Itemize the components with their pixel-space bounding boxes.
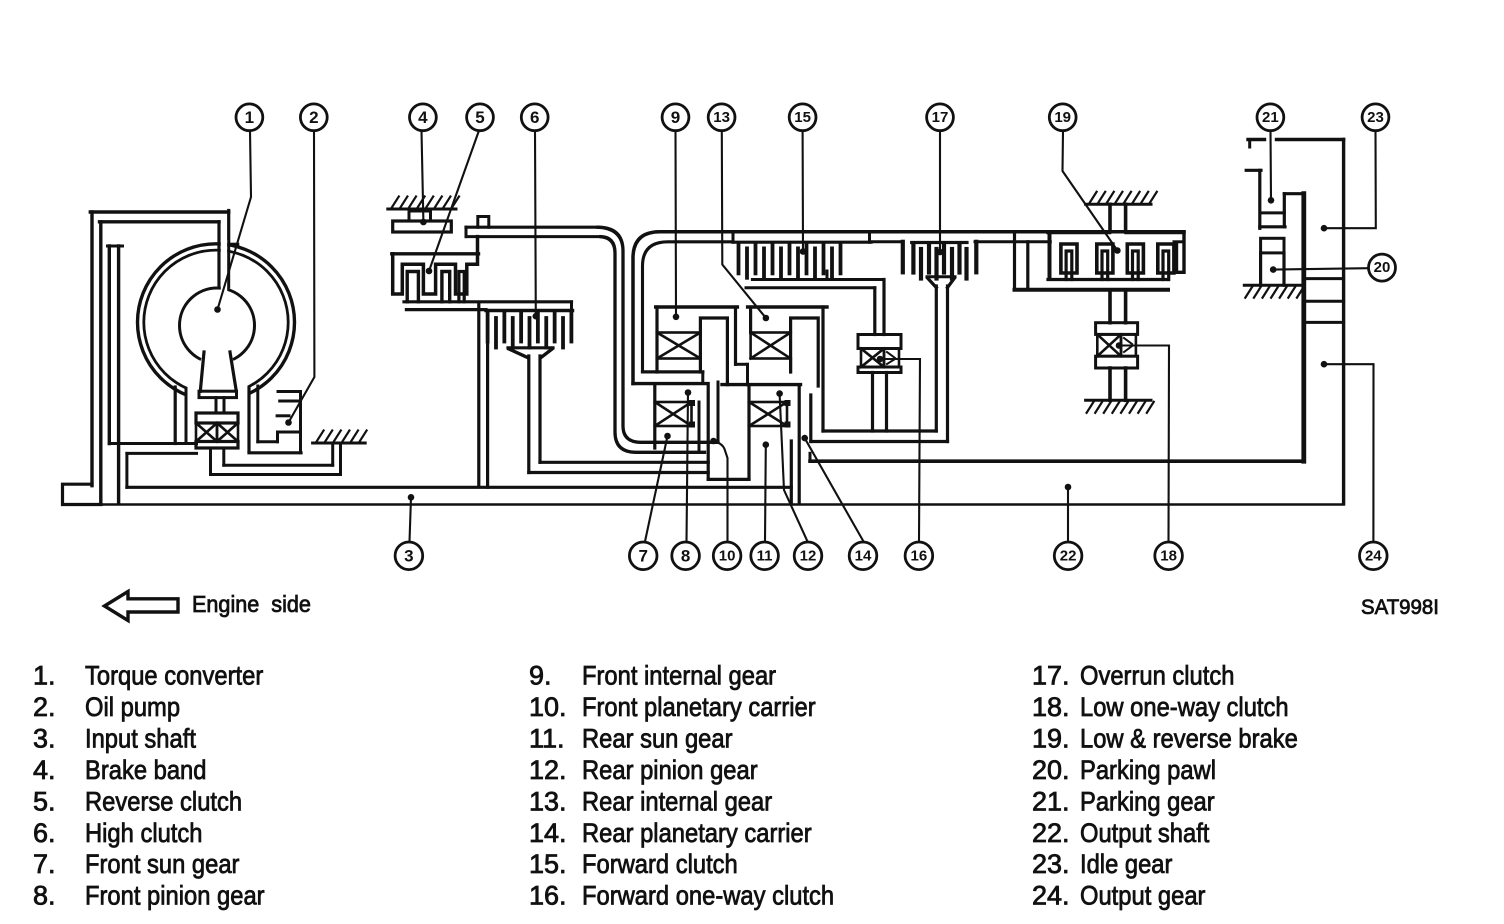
input shaft top line (3) bbox=[127, 486, 791, 489]
low one-way clutch (18) top flange bbox=[1096, 323, 1138, 335]
front sun gear box (7) bbox=[633, 382, 708, 385]
callout circle 15 bbox=[789, 104, 816, 131]
forward one-way clutch (16) bottom flange bbox=[858, 367, 901, 373]
svg-text:17: 17 bbox=[932, 109, 949, 126]
svg-text:24.: 24. bbox=[1032, 881, 1070, 911]
leader 12 bbox=[780, 394, 808, 542]
svg-text:23: 23 bbox=[1367, 109, 1384, 126]
svg-text:15.: 15. bbox=[529, 849, 567, 879]
low one-way clutch stem (lower) bbox=[1108, 368, 1112, 400]
rear sun bearing bbox=[749, 402, 787, 426]
pump drive neck bbox=[215, 398, 218, 413]
pump ground bracket bbox=[331, 443, 334, 465]
reverse clutch hub plate bbox=[404, 300, 572, 303]
output/idle gear mesh lines bbox=[1304, 277, 1344, 280]
low one-way clutch stem (upper) bbox=[1108, 290, 1112, 323]
svg-text:4.: 4. bbox=[33, 755, 56, 785]
leader 7 bbox=[645, 436, 668, 542]
rear sun gear box (11) bbox=[722, 383, 801, 386]
svg-text:1: 1 bbox=[245, 108, 254, 127]
forward one-way clutch (16) top flange bbox=[858, 335, 901, 349]
forward one-way clutch stem bbox=[871, 373, 874, 432]
idle gear top line bbox=[1248, 138, 1265, 141]
svg-text:14: 14 bbox=[855, 547, 872, 564]
svg-text:Oil pump: Oil pump bbox=[85, 693, 180, 723]
forward clutch comb (15) bbox=[733, 241, 871, 244]
high clutch hub goblet bbox=[509, 349, 528, 358]
svg-text:24: 24 bbox=[1365, 547, 1382, 564]
svg-text:5: 5 bbox=[475, 108, 484, 127]
turbine funnel cone bbox=[200, 352, 204, 391]
svg-text:6.: 6. bbox=[33, 818, 56, 848]
callout circle 6 bbox=[521, 104, 548, 131]
ground (under low one-way clutch) bbox=[1086, 399, 1151, 402]
torque converter inner shell ring bbox=[144, 250, 288, 394]
front box bottom bbox=[643, 370, 703, 373]
callout circle 14 bbox=[849, 542, 877, 570]
callout circle 13 bbox=[708, 104, 735, 131]
high clutch output shaft bbox=[527, 356, 530, 473]
parking gear bar (21) bbox=[1301, 194, 1306, 462]
leader 21 bbox=[1269, 131, 1272, 201]
front sun gear shaft lines bbox=[540, 461, 708, 464]
reverse clutch comb (5) bbox=[392, 252, 479, 255]
callout circle 10 bbox=[713, 542, 741, 570]
overrun hub stem bbox=[935, 286, 938, 431]
svg-text:Brake band: Brake band bbox=[85, 755, 206, 785]
drum second line segments bbox=[870, 240, 902, 243]
leader 5 bbox=[429, 131, 479, 272]
rear sun bottom bbox=[708, 478, 749, 481]
leader 6 bbox=[534, 131, 537, 316]
high clutch comb (6) bbox=[486, 309, 573, 312]
front internal gear bearing bbox=[657, 333, 700, 359]
turbine funnel mask bbox=[198, 354, 236, 368]
leader 1 bbox=[218, 131, 252, 310]
leader 13 bbox=[722, 131, 766, 318]
rear gear step bbox=[789, 359, 792, 373]
band drum shaft bbox=[477, 303, 480, 486]
bottom case line bbox=[63, 503, 1344, 505]
svg-text:18.: 18. bbox=[1032, 692, 1070, 722]
callout circle 11 bbox=[751, 542, 779, 570]
svg-text:11.: 11. bbox=[529, 723, 565, 753]
svg-text:20.: 20. bbox=[1032, 755, 1070, 785]
callout circle 7 bbox=[629, 542, 657, 570]
svg-text:Front planetary carrier: Front planetary carrier bbox=[582, 693, 816, 723]
converter right leg bbox=[247, 388, 250, 451]
leader 2 bbox=[289, 131, 315, 423]
svg-text:2.: 2. bbox=[33, 692, 56, 722]
svg-text:19.: 19. bbox=[1032, 723, 1070, 753]
svg-text:Engine side: Engine side bbox=[192, 591, 311, 617]
transmission case outer wall (left) bbox=[90, 212, 93, 486]
callout circle 23 bbox=[1362, 104, 1389, 131]
case top wall bbox=[90, 210, 228, 213]
turbine hub top mask bbox=[221, 284, 227, 294]
svg-text:13.: 13. bbox=[529, 786, 567, 816]
leader 14 bbox=[805, 438, 864, 541]
svg-text:Low one-way clutch: Low one-way clutch bbox=[1080, 693, 1289, 723]
svg-text:Rear internal gear: Rear internal gear bbox=[582, 787, 773, 817]
leader 17 bbox=[939, 131, 941, 252]
leader 4 bbox=[422, 131, 424, 222]
leader 9 bbox=[674, 131, 677, 317]
leader 24 bbox=[1324, 364, 1374, 541]
low & reverse brake inner plate bbox=[1048, 278, 1168, 281]
svg-text:Rear pinion gear: Rear pinion gear bbox=[582, 755, 758, 785]
callout circle 22 bbox=[1054, 542, 1082, 570]
svg-text:Rear sun gear: Rear sun gear bbox=[582, 724, 733, 754]
low one-way clutch (18) bottom flange bbox=[1096, 356, 1138, 368]
svg-text:13: 13 bbox=[713, 109, 730, 126]
oil pump feed channel bbox=[109, 442, 196, 445]
svg-text:15: 15 bbox=[794, 109, 811, 126]
turbine collar bbox=[199, 391, 237, 397]
case top step into torque converter housing bbox=[227, 211, 230, 245]
svg-text:21.: 21. bbox=[1032, 786, 1070, 816]
leader 19 bbox=[1063, 131, 1118, 251]
rear drum wall (right of overrun) bbox=[1013, 232, 1016, 290]
low & reverse brake comb (19) bbox=[1048, 231, 1110, 234]
pillar inner line bbox=[717, 382, 720, 442]
svg-text:9: 9 bbox=[671, 108, 680, 127]
svg-text:22.: 22. bbox=[1032, 818, 1070, 848]
svg-text:8.: 8. bbox=[33, 881, 56, 911]
output shaft line bbox=[810, 459, 1304, 463]
svg-text:10.: 10. bbox=[529, 692, 567, 722]
svg-text:Parking pawl: Parking pawl bbox=[1080, 755, 1216, 785]
leader 11 bbox=[764, 445, 767, 542]
svg-text:Front pinion gear: Front pinion gear bbox=[85, 881, 265, 911]
callout circle 24 bbox=[1360, 542, 1388, 570]
svg-text:12: 12 bbox=[800, 547, 817, 564]
svg-text:5.: 5. bbox=[33, 786, 56, 816]
output gear right wall bbox=[1342, 140, 1345, 504]
ground (low & reverse brake anchor) bbox=[1086, 203, 1151, 206]
rear internal gear bearing bbox=[751, 333, 791, 359]
leader 16 bbox=[880, 359, 920, 542]
oil pump body bracket (2) bbox=[278, 432, 301, 442]
svg-text:Idle gear: Idle gear bbox=[1080, 850, 1173, 880]
oil pump bottom plate bbox=[196, 442, 238, 449]
svg-text:Output shaft: Output shaft bbox=[1080, 818, 1209, 848]
oil pump bearing crosshatch box bbox=[196, 423, 217, 442]
svg-text:High clutch: High clutch bbox=[85, 818, 202, 848]
parking gear T cap bbox=[1284, 192, 1304, 195]
parking pawl box (20) bbox=[1261, 238, 1284, 253]
leader 8 bbox=[687, 393, 689, 542]
callout circle 18 bbox=[1155, 542, 1183, 570]
svg-text:Parking gear: Parking gear bbox=[1080, 787, 1215, 817]
oil pump foot bbox=[209, 448, 212, 475]
svg-text:3: 3 bbox=[404, 546, 413, 565]
stator support wall bbox=[108, 246, 111, 444]
callout circle 5 bbox=[467, 104, 494, 131]
svg-text:Low & reverse brake: Low & reverse brake bbox=[1080, 724, 1298, 754]
reverse-to-high drum plate bbox=[406, 308, 486, 311]
callout circle 19 bbox=[1049, 104, 1076, 131]
svg-text:8: 8 bbox=[681, 546, 690, 565]
low one-way clutch (18) crosshatch bbox=[1097, 334, 1121, 356]
parking gear ledge bbox=[1246, 169, 1261, 172]
callout circle 16 bbox=[905, 542, 933, 570]
svg-text:Front internal gear: Front internal gear bbox=[582, 661, 777, 691]
callout circle 8 bbox=[672, 542, 700, 570]
leader 10 bbox=[714, 441, 728, 542]
leader 15 bbox=[802, 131, 805, 252]
ground (parking pawl) bbox=[1244, 284, 1300, 287]
torque converter top channel mask bbox=[221, 240, 227, 288]
hub-to-case channel lines bbox=[218, 222, 221, 287]
rear sun pillar bbox=[791, 318, 819, 386]
callout circle 2 bbox=[300, 104, 327, 131]
callout circle 4 bbox=[410, 104, 437, 131]
leader 20 bbox=[1273, 268, 1368, 269]
forward one-way clutch (16) crosshatch bbox=[861, 349, 884, 368]
svg-text:17.: 17. bbox=[1032, 661, 1070, 691]
callout circle 12 bbox=[794, 542, 822, 570]
case foot (bottom-left) bbox=[63, 484, 102, 504]
svg-text:23.: 23. bbox=[1032, 849, 1070, 879]
callout circle 21 bbox=[1257, 104, 1284, 131]
leader 23 bbox=[1324, 131, 1376, 228]
band servo stub bbox=[478, 217, 489, 228]
overrun clutch comb (17) bbox=[912, 241, 967, 244]
input drum top channel bbox=[466, 226, 598, 229]
low & reverse brake anchor stem bbox=[1108, 204, 1112, 232]
input drum bend (inner) bbox=[601, 237, 705, 453]
svg-text:18: 18 bbox=[1160, 547, 1177, 564]
svg-text:Front sun gear: Front sun gear bbox=[85, 850, 240, 880]
front sun bearing bbox=[655, 402, 692, 426]
rear drum bottom channel bbox=[823, 429, 936, 432]
svg-text:4: 4 bbox=[418, 108, 428, 127]
torque converter outer shell bbox=[138, 244, 295, 401]
drum second line (left bend) bbox=[643, 242, 734, 372]
forward clutch hub channel bbox=[827, 278, 884, 281]
svg-text:6: 6 bbox=[530, 108, 539, 127]
torque converter bottom opening mask bbox=[188, 382, 248, 403]
input drum bend (outer) bbox=[598, 227, 718, 442]
front sun pillar bbox=[700, 318, 727, 385]
callout circle 1 bbox=[236, 104, 263, 131]
front internal gear box (9) bbox=[656, 305, 738, 308]
svg-text:10: 10 bbox=[719, 547, 736, 564]
overrun hub trunk bbox=[928, 278, 937, 288]
parking gear cup bbox=[1258, 170, 1261, 228]
callout circle 20 bbox=[1369, 254, 1396, 281]
svg-text:Forward clutch: Forward clutch bbox=[582, 850, 738, 880]
leader 18 bbox=[1119, 346, 1169, 543]
svg-text:14.: 14. bbox=[529, 818, 567, 848]
svg-text:Forward one-way clutch: Forward one-way clutch bbox=[582, 881, 834, 911]
front sun inner line bbox=[698, 402, 701, 450]
svg-text:20: 20 bbox=[1374, 259, 1391, 276]
svg-text:19: 19 bbox=[1054, 109, 1071, 126]
svg-text:22: 22 bbox=[1060, 547, 1077, 564]
svg-text:Torque converter: Torque converter bbox=[85, 661, 264, 691]
engine side arrow bbox=[105, 592, 179, 621]
svg-text:16: 16 bbox=[911, 547, 928, 564]
callout circle 17 bbox=[927, 104, 954, 131]
input shaft risers bbox=[790, 441, 793, 504]
ground (brake band anchor) bbox=[388, 208, 456, 211]
svg-text:SAT998I: SAT998I bbox=[1361, 596, 1439, 620]
callout circle 3 bbox=[395, 542, 423, 570]
pump bottom bridge lines bbox=[224, 464, 333, 467]
svg-text:16.: 16. bbox=[529, 881, 567, 911]
svg-text:Output gear: Output gear bbox=[1080, 881, 1206, 911]
svg-text:7: 7 bbox=[638, 546, 647, 565]
svg-text:7.: 7. bbox=[33, 849, 56, 879]
front gear Z-step bbox=[736, 363, 748, 366]
svg-text:11: 11 bbox=[757, 547, 773, 564]
converter left leg bbox=[174, 387, 177, 444]
oil pump body plate bbox=[249, 451, 301, 454]
svg-text:Input shaft: Input shaft bbox=[85, 724, 196, 754]
brake band (4) bbox=[393, 221, 452, 232]
svg-text:21: 21 bbox=[1262, 109, 1279, 126]
svg-text:Reverse clutch: Reverse clutch bbox=[85, 787, 242, 817]
svg-text:2: 2 bbox=[309, 108, 318, 127]
svg-text:3.: 3. bbox=[33, 723, 56, 753]
svg-text:Rear planetary carrier: Rear planetary carrier bbox=[582, 818, 812, 848]
brake band anchor tab bbox=[409, 211, 431, 221]
rear hub plate bbox=[1015, 288, 1169, 292]
callout circle 9 bbox=[662, 104, 689, 131]
oil pump top plate bbox=[196, 413, 238, 423]
svg-text:1.: 1. bbox=[33, 661, 56, 691]
svg-text:9.: 9. bbox=[529, 661, 552, 691]
drum top line (main) bbox=[633, 232, 1184, 384]
torque converter turbine hub circle bbox=[180, 288, 255, 363]
leader 22 bbox=[1067, 487, 1069, 542]
leader 3 bbox=[410, 497, 412, 541]
svg-text:12.: 12. bbox=[529, 755, 567, 785]
svg-text:Overrun clutch: Overrun clutch bbox=[1080, 661, 1234, 691]
rear internal gear box (13) bbox=[748, 305, 827, 308]
ground (oil pump support) bbox=[313, 442, 366, 445]
